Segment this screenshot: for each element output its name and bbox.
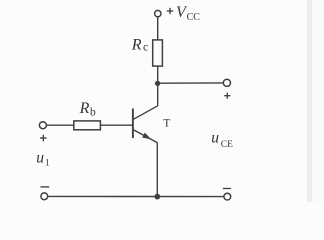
svg-text:CE: CE — [221, 140, 233, 150]
svg-text:u: u — [36, 150, 44, 167]
svg-text:c: c — [143, 42, 148, 54]
svg-text:CC: CC — [187, 12, 201, 23]
svg-text:u: u — [211, 129, 219, 146]
svg-text:1: 1 — [45, 159, 50, 169]
svg-text:R: R — [79, 100, 90, 117]
svg-text:b: b — [90, 107, 96, 119]
svg-text:T: T — [163, 118, 170, 130]
svg-text:R: R — [131, 37, 142, 54]
